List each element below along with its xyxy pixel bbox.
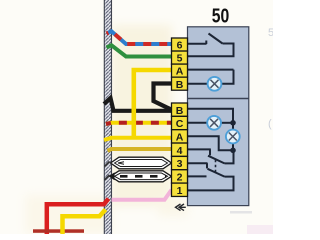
svg-text:A: A xyxy=(176,132,184,144)
svg-text:B: B xyxy=(176,79,184,91)
svg-text:3: 3 xyxy=(177,158,183,170)
svg-text:6: 6 xyxy=(177,40,183,52)
svg-text:2: 2 xyxy=(177,172,183,184)
svg-text:4: 4 xyxy=(177,145,183,157)
svg-text:5: 5 xyxy=(177,53,183,65)
svg-text:C: C xyxy=(176,118,184,130)
svg-text:A: A xyxy=(176,66,184,78)
svg-text:B: B xyxy=(176,105,184,117)
svg-text:50: 50 xyxy=(212,6,230,28)
svg-text:1: 1 xyxy=(177,185,183,197)
svg-text:5: 5 xyxy=(268,27,273,39)
svg-text:(: ( xyxy=(268,118,272,130)
